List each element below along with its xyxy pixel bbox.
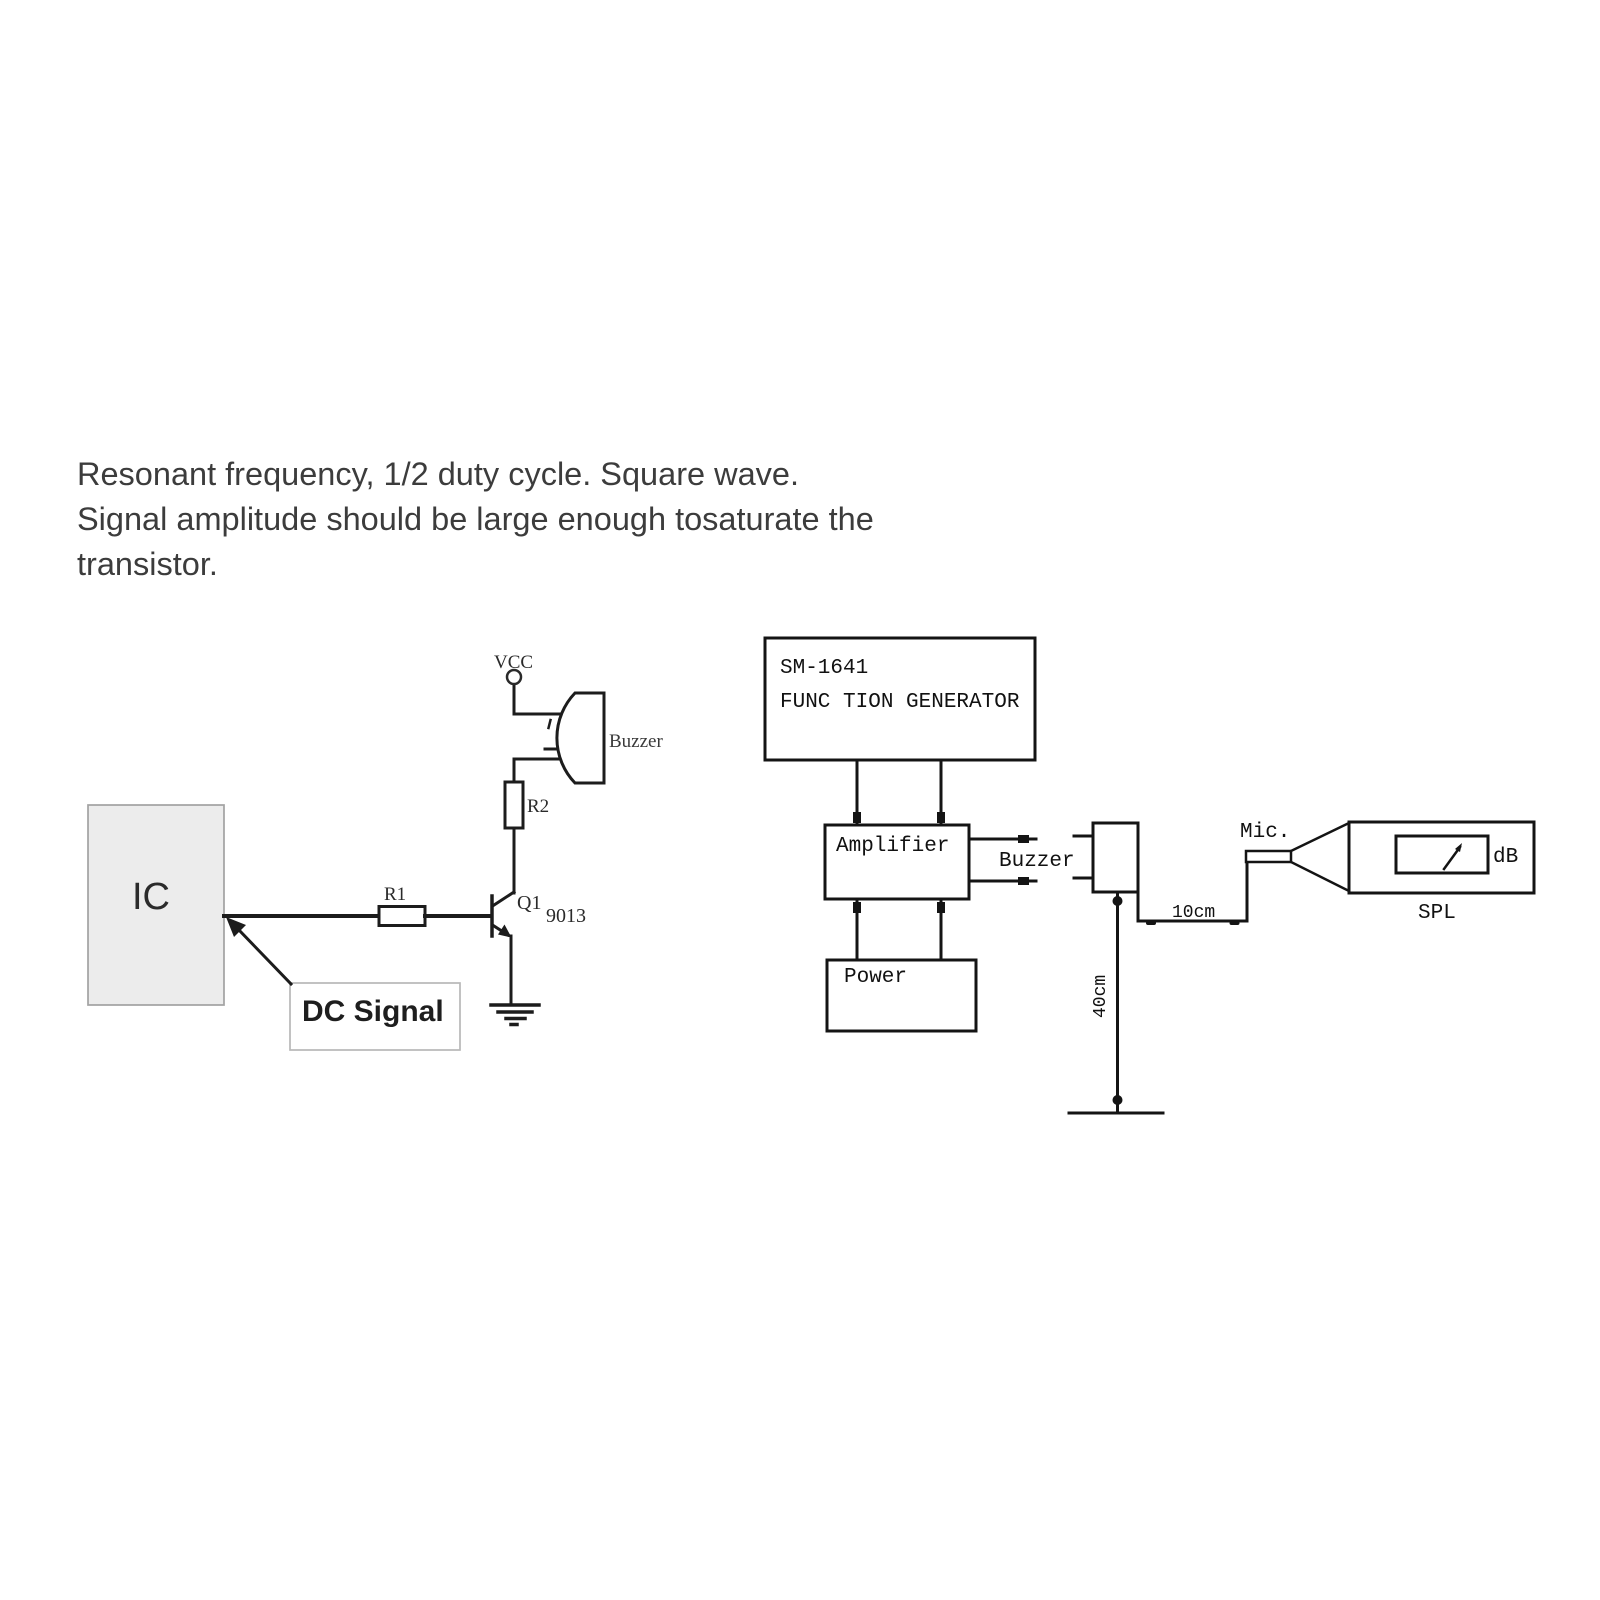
microphone body — [1246, 851, 1291, 862]
buzzer BZ1 body — [557, 693, 604, 783]
plug dot output bottom — [1018, 877, 1029, 885]
ground symbol — [491, 1005, 539, 1025]
connector dot power feed right — [937, 902, 945, 913]
svg-text:9013: 9013 — [546, 905, 586, 927]
svg-text:R2: R2 — [527, 796, 549, 817]
resistor R1 — [379, 907, 425, 926]
svg-text:VCC: VCC — [494, 652, 533, 673]
wire collector to R2 — [513, 828, 516, 893]
svg-text:Power: Power — [844, 966, 907, 989]
wire R2 to buzzer minus terminal — [514, 759, 570, 782]
meter needle — [1444, 843, 1462, 869]
connector dot power feed left — [853, 902, 861, 913]
dimension tick left — [1146, 921, 1156, 925]
SPL meter cone — [1291, 823, 1349, 891]
wire generator to amplifier right — [940, 760, 943, 825]
resistor R2 — [505, 782, 523, 828]
stub after plug top — [1029, 838, 1036, 841]
svg-text:Mic.: Mic. — [1240, 821, 1290, 844]
wire R1 to Q1 base — [425, 914, 490, 918]
floor line — [1069, 1112, 1163, 1115]
IC U1 box — [88, 805, 224, 1005]
wire amplifier to power right — [940, 899, 943, 960]
connector dot amplifier top left — [853, 812, 861, 823]
buzzer input stub top — [1074, 835, 1093, 838]
transistor Q1 collector stroke — [493, 892, 515, 906]
svg-text:dB: dB — [1493, 846, 1518, 869]
amplifier output wire bottom — [969, 880, 1018, 883]
amplifier output wire top — [969, 838, 1018, 841]
wire VCC to buzzer plus terminal — [514, 684, 571, 714]
rod junction dot bottom — [1113, 1095, 1123, 1105]
rod junction dot top — [1113, 896, 1123, 906]
plug dot output top — [1018, 835, 1029, 843]
svg-text:FUNC TION GENERATOR: FUNC TION GENERATOR — [780, 691, 1020, 714]
svg-text:Buzzer: Buzzer — [609, 731, 663, 752]
transistor Q1 emitter stroke with arrow — [493, 925, 512, 938]
amplifier box — [825, 825, 969, 899]
svg-text:Buzzer: Buzzer — [999, 850, 1075, 873]
meter face — [1396, 836, 1488, 873]
svg-text:SM-1641: SM-1641 — [780, 657, 868, 680]
buzzer plus polarity mark — [549, 720, 551, 728]
svg-text:Amplifier: Amplifier — [836, 835, 949, 858]
wire emitter to ground — [510, 936, 513, 1005]
svg-text:10cm: 10cm — [1172, 903, 1215, 923]
stub after plug bottom — [1029, 880, 1036, 883]
VCC terminal circle — [507, 670, 521, 684]
svg-text:IC: IC — [132, 876, 170, 918]
buzzer under test box — [1093, 823, 1138, 892]
svg-text:R1: R1 — [384, 884, 406, 905]
stand rod 40cm — [1116, 892, 1119, 1113]
DC Signal callout box — [290, 983, 460, 1050]
svg-text:Q1: Q1 — [517, 892, 541, 914]
wire IC to R1 — [224, 914, 379, 918]
transistor Q1 base bar — [490, 896, 494, 936]
power box — [827, 960, 976, 1031]
function generator box SM-1641 — [765, 638, 1035, 760]
wire amplifier to power left — [856, 899, 859, 960]
connector dot amplifier top right — [937, 812, 945, 823]
buzzer minus polarity mark — [545, 748, 555, 751]
SPL meter body — [1349, 822, 1534, 893]
buzzer input stub bottom — [1074, 877, 1093, 880]
dimension tick right — [1230, 921, 1240, 925]
DC Signal arrow to IC pin — [226, 917, 291, 984]
svg-text:40cm: 40cm — [1091, 975, 1111, 1018]
svg-text:SPL: SPL — [1418, 902, 1456, 925]
svg-text:DC Signal: DC Signal — [302, 995, 444, 1028]
wire box to 10cm run — [1138, 862, 1247, 921]
wire generator to amplifier left — [856, 760, 859, 825]
